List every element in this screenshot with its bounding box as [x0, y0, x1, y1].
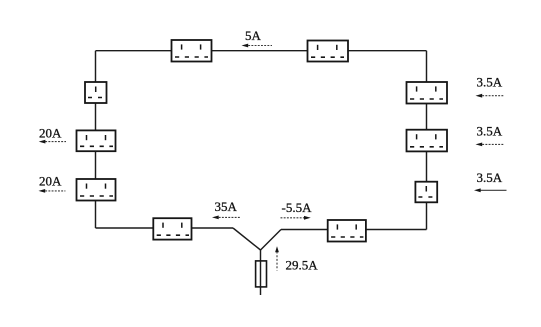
svg-text:3.5A: 3.5A	[477, 170, 503, 185]
svg-text:5A: 5A	[245, 28, 262, 43]
svg-text:29.5A: 29.5A	[286, 258, 319, 273]
svg-text:3.5A: 3.5A	[477, 124, 503, 139]
arrow 20A lower	[39, 189, 66, 193]
arrow 35A	[212, 216, 241, 220]
svg-text:35A: 35A	[215, 199, 238, 214]
socket L2	[77, 130, 116, 151]
wire left	[95, 51, 97, 228]
socket R2	[407, 130, 448, 152]
fuse F1	[256, 261, 267, 287]
wire right	[426, 51, 428, 230]
arrow 3.5A middle	[476, 143, 505, 147]
arrow -5.5A	[281, 216, 311, 220]
svg-text:20A: 20A	[39, 174, 62, 189]
arrow 3.5A top	[476, 94, 505, 98]
arrow 20A upper	[39, 140, 66, 144]
socket L1	[85, 82, 107, 103]
wire slope left	[233, 228, 261, 250]
arrow 29.5A up	[275, 246, 279, 270]
socket B2	[328, 220, 366, 242]
svg-text:-5.5A: -5.5A	[282, 200, 313, 215]
svg-text:3.5A: 3.5A	[477, 75, 503, 90]
socket T1	[172, 40, 212, 62]
socket R1	[407, 82, 448, 104]
arrow 3.5A bottom	[474, 188, 507, 192]
wire slope right	[261, 230, 282, 251]
socket T2	[308, 41, 349, 62]
socket L3	[77, 179, 116, 201]
wire bottom-right	[281, 229, 427, 231]
socket R3	[415, 182, 437, 203]
socket B1	[153, 218, 191, 239]
arrow 5A	[242, 44, 273, 48]
wire top	[96, 50, 427, 52]
wire feeder drop	[260, 250, 262, 295]
svg-text:20A: 20A	[39, 125, 62, 140]
wire bottom-left	[96, 227, 234, 229]
